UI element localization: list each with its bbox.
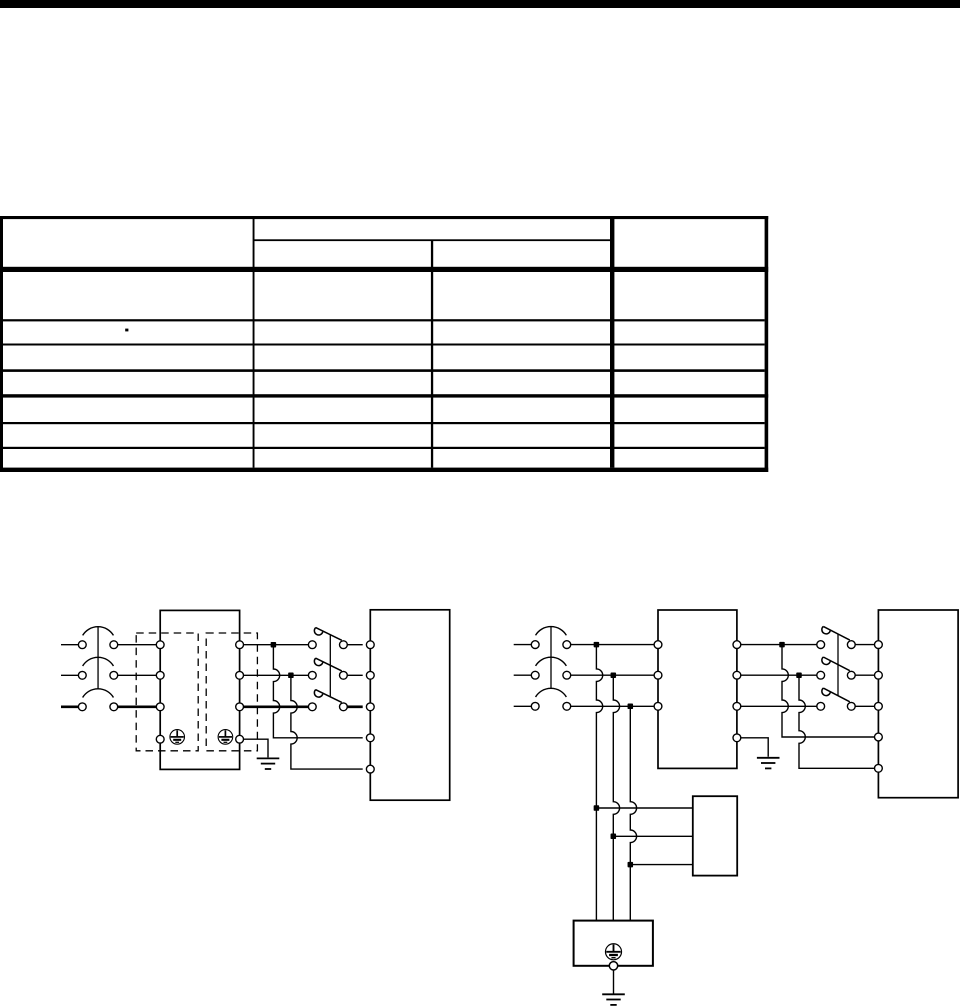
knife switch S3 hook <box>314 690 322 697</box>
table column line v1 <box>253 219 255 468</box>
breaker CB1 pole 2 lead wire <box>61 674 78 676</box>
node dot filter tap 1 <box>594 805 600 811</box>
PLC box left diagram <box>370 610 449 800</box>
knife switch S4 blade <box>823 626 850 640</box>
breaker CB1 pole 1 arc <box>83 627 114 636</box>
table row line 2 <box>3 344 765 346</box>
wire transformer T2 LG terminal to ground <box>741 738 768 757</box>
knife switch S4 terminals <box>817 641 855 649</box>
breaker CB1 pole 3 lead wire thick <box>61 705 78 708</box>
table header bottom thick line <box>0 267 768 272</box>
wire transformer to switch phase 1 right diagram <box>741 644 817 646</box>
table outer border top <box>0 216 768 219</box>
table row line 3 <box>3 369 765 372</box>
wire to filter line 1 <box>596 807 692 809</box>
knife switch S1 blade <box>316 628 342 641</box>
wire breaker to transformer phase 1 right diagram <box>571 644 654 646</box>
table column line v3 thick <box>610 219 614 468</box>
breaker CB2 pole 1 terminals <box>531 641 570 649</box>
tap wire phase1 to PLC terminal 4 right diagram <box>782 645 875 737</box>
node dot phase 2 right diagram <box>796 672 802 678</box>
knife switch S2 blade <box>316 658 342 671</box>
earth plate bottom terminal <box>609 962 617 970</box>
knife switch S3 terminals <box>308 703 347 711</box>
knife switch S5 terminals <box>817 671 855 679</box>
shield dashed box 2 <box>206 633 257 751</box>
wire to filter line 2 <box>613 835 693 837</box>
wire transformer to switch phase 3 thick <box>244 705 309 708</box>
wire breaker to transformer phase 2 right diagram <box>571 674 654 676</box>
wire terminal to ground bottom <box>613 970 615 994</box>
node dot filter tap 3 <box>628 862 634 868</box>
tap vertical line 1 to filter with hops <box>596 645 602 921</box>
shield dashed box 1 <box>136 633 198 751</box>
ground symbol G1 <box>257 758 280 769</box>
wire transformer to switch phase 2 right diagram <box>741 674 817 676</box>
breaker CB1 pole 2 terminals <box>78 671 117 679</box>
breaker CB2 pole 2 terminals <box>531 671 570 679</box>
knife switch S1 hook <box>314 628 322 635</box>
transformer T1 secondary terminals <box>236 641 244 743</box>
knife switch S1 terminals <box>308 641 347 649</box>
table header split line <box>253 239 611 241</box>
knife switch S5 hook <box>822 657 830 664</box>
PLC terminals left diagram <box>366 641 374 773</box>
table row line 4 thick <box>0 394 768 397</box>
wire breaker to transformer phase 1 <box>118 644 157 646</box>
knife switch S4 hook <box>822 626 830 633</box>
transformer T2 secondary terminals <box>733 641 741 742</box>
table outer border right <box>765 216 769 472</box>
wire to filter line 3 <box>630 864 693 866</box>
wire transformer to switch phase 1 <box>244 644 309 646</box>
switch linkage line right diagram <box>837 634 839 696</box>
wire transformer to switch phase 3 right diagram <box>741 705 817 707</box>
transformer T1 primary terminals <box>156 641 164 743</box>
table outer border bottom <box>0 468 768 472</box>
breaker CB2 pole 3 lead wire <box>514 705 532 707</box>
wire breaker to transformer phase 3 right diagram <box>571 705 654 707</box>
ground symbol G2 <box>757 758 780 769</box>
tap vertical line 3 to filter with hops <box>630 706 636 920</box>
breaker CB2 pole 3 terminals <box>531 702 570 710</box>
wire transformer LG terminal to ground <box>244 739 269 757</box>
PLC terminals right diagram <box>875 641 883 773</box>
node dot phase 1 <box>271 642 277 648</box>
top black header bar <box>0 0 960 8</box>
wire breaker to transformer phase 3 thick <box>118 705 157 708</box>
breaker CB2 pole 1 arc <box>536 627 567 636</box>
switch linkage line <box>329 635 331 697</box>
transformer T1 box <box>160 610 239 769</box>
table column line v2 <box>431 240 433 467</box>
breaker CB2 pole 2 arc <box>536 657 567 666</box>
node dot tap 3 <box>628 704 634 710</box>
wire switch to PLC phase 3 right diagram <box>855 705 874 707</box>
table cell dot mark <box>125 329 128 332</box>
breaker CB1 pole 3 arc <box>83 689 114 698</box>
breaker CB1 pole 2 arc <box>83 657 114 666</box>
wire transformer to switch phase 2 <box>244 674 309 676</box>
protective earth symbol PE2 <box>218 730 233 745</box>
node dot phase 2 <box>288 673 294 679</box>
transformer T2 primary terminals <box>654 641 662 711</box>
wire switch to PLC phase 2 <box>347 674 362 676</box>
breaker CB2 pole 1 lead wire <box>514 644 532 646</box>
ground symbol G3 <box>602 994 625 1005</box>
protective earth symbol PE1 <box>170 730 185 745</box>
knife switch S6 hook <box>822 688 830 695</box>
breaker CB1 pole 1 lead wire <box>61 644 78 646</box>
knife switch S5 blade <box>823 657 850 671</box>
breaker CB1 linkage line <box>97 627 99 689</box>
table row line 5 <box>3 422 765 424</box>
PLC box right diagram <box>878 610 958 798</box>
wire switch to PLC phase 1 <box>347 644 362 646</box>
node dot filter tap 2 <box>611 834 617 840</box>
wire breaker to transformer phase 2 <box>118 674 157 676</box>
knife switch S3 blade <box>316 690 342 703</box>
tap vertical line 2 to filter with hops <box>613 675 619 920</box>
breaker CB1 pole 3 terminals <box>78 703 117 711</box>
node dot tap 1 <box>594 642 600 648</box>
knife switch S6 blade <box>823 688 850 702</box>
wire switch to PLC phase 2 right diagram <box>855 674 874 676</box>
tap wire phase2 to PLC terminal 5 with crossover hops <box>291 675 363 769</box>
breaker CB2 pole 2 lead wire <box>514 674 532 676</box>
earth plate box <box>574 921 653 966</box>
breaker CB2 linkage line <box>550 627 552 689</box>
breaker CB2 pole 3 arc <box>536 688 567 697</box>
tap wire phase1 to PLC terminal 4 with crossover hops <box>273 645 362 738</box>
node dot tap 2 <box>611 672 617 678</box>
table outer border left <box>0 216 3 472</box>
transformer T2 box <box>658 610 737 768</box>
knife switch S2 hook <box>314 658 322 665</box>
table row line 6 <box>3 447 765 449</box>
table row line 1 <box>3 319 765 321</box>
tap wire phase2 to PLC terminal 5 right diagram <box>799 675 875 768</box>
knife switch S6 terminals <box>817 702 855 710</box>
noise filter box <box>693 796 737 875</box>
node dot phase 1 right diagram <box>779 642 785 648</box>
protective earth symbol PE3 <box>605 944 621 960</box>
wire switch to PLC phase 1 right diagram <box>855 644 874 646</box>
wire switch to PLC phase 3 thick <box>347 705 362 708</box>
breaker CB1 pole 1 terminals <box>78 641 117 649</box>
knife switch S2 terminals <box>308 671 347 679</box>
